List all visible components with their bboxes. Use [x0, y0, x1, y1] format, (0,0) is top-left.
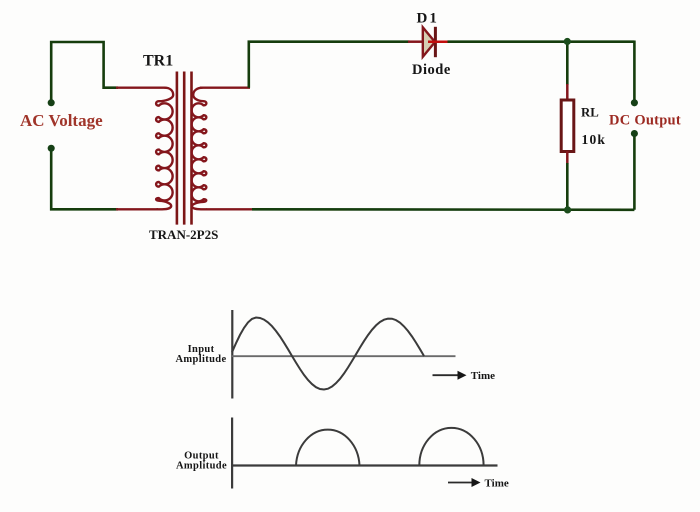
wire bottom-left from AC bottom terminal down and right	[51, 148, 118, 209]
transformer core (3 lines)	[177, 72, 192, 225]
svg-text:D1: D1	[417, 11, 439, 27]
svg-text:RL: RL	[581, 105, 599, 119]
input plot horizontal axis	[231, 355, 456, 357]
transformer TR1 secondary winding	[192, 88, 207, 210]
svg-text:Amplitude: Amplitude	[176, 354, 227, 365]
svg-text:10k: 10k	[582, 132, 607, 147]
AC top terminal	[48, 99, 55, 106]
svg-text:TR1: TR1	[143, 53, 173, 70]
junction top at RL	[564, 38, 571, 45]
wire diode anode stub (maroon)	[408, 40, 423, 43]
wire RL branch top (green then maroon stub)	[566, 42, 569, 85]
svg-text:DC Output: DC Output	[609, 112, 681, 128]
wire primary top lead (maroon)	[116, 86, 166, 88]
DC top terminal	[631, 99, 638, 106]
diode D1 triangle	[423, 27, 435, 57]
svg-text:Time: Time	[471, 370, 495, 382]
junction bottom at RL	[564, 206, 571, 213]
DC bottom terminal	[631, 130, 638, 137]
input time arrow	[433, 374, 460, 376]
svg-text:AC Voltage: AC Voltage	[20, 111, 103, 130]
svg-text:Amplitude: Amplitude	[176, 461, 227, 472]
wire primary bottom lead (maroon)	[116, 208, 158, 210]
output plot horizontal axis	[231, 464, 498, 466]
svg-text:TRAN-2P2S: TRAN-2P2S	[149, 227, 218, 242]
wire bottom rail green from transformer to RL junction and right corner	[252, 208, 634, 211]
input sine waveform	[232, 318, 424, 390]
wire right branch down to DC top terminal	[633, 41, 636, 103]
input plot vertical axis	[231, 310, 233, 399]
output rectified hump 2	[419, 428, 483, 466]
output time arrow	[448, 482, 473, 484]
svg-text:Time: Time	[485, 478, 509, 490]
wire DC bottom terminal down to bottom rail	[633, 134, 636, 210]
wire diode to junction and to right corner (green)	[448, 40, 635, 43]
AC bottom terminal	[48, 145, 55, 152]
wire secondary bottom lead (maroon)	[206, 208, 252, 210]
diode D1 cathode bar	[434, 27, 437, 57]
resistor RL body	[561, 100, 574, 152]
wire secondary top lead (maroon)	[200, 86, 250, 88]
output plot vertical axis	[231, 418, 233, 489]
wire top-left from AC top terminal up and over to transformer primary	[51, 42, 118, 103]
transformer TR1 primary winding	[156, 88, 173, 210]
output rectified hump 1	[296, 430, 360, 466]
wire secondary top to diode (green)	[249, 42, 410, 88]
wire diode cathode segment (bright red)	[428, 40, 449, 43]
svg-text:Diode: Diode	[412, 62, 451, 78]
wire RL branch bottom (maroon stub then green)	[566, 151, 569, 164]
